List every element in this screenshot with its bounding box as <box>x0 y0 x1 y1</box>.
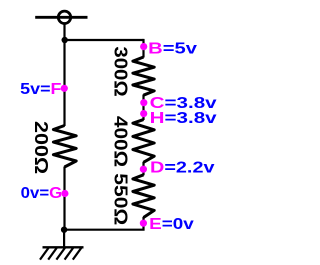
wire ground stem <box>63 230 65 247</box>
ground <box>40 247 84 259</box>
resistor 300 ohm zigzag <box>133 57 154 95</box>
resistor 550 ohm zigzag <box>133 175 154 218</box>
resistor 400 ohm zigzag <box>133 120 154 163</box>
svg-text:5v=F: 5v=F <box>20 81 62 98</box>
node H <box>140 110 147 117</box>
resistor 200 ohm zigzag <box>53 126 76 168</box>
node junction bottom <box>61 227 67 233</box>
svg-text:0v=G: 0v=G <box>21 185 62 202</box>
svg-text:E=0v: E=0v <box>149 216 194 233</box>
node F <box>61 85 68 92</box>
node D <box>140 166 147 173</box>
svg-text:B=5v: B=5v <box>148 41 197 58</box>
node C <box>140 99 147 106</box>
wire right vertical top (corner to 300 ohm) <box>142 39 144 58</box>
wire between 400 and 550 (node D) <box>142 162 144 176</box>
svg-text:D=2.2v: D=2.2v <box>150 160 215 177</box>
node junction top <box>61 37 67 43</box>
node G <box>61 190 68 197</box>
svg-text:550Ω: 550Ω <box>110 173 130 225</box>
svg-text:200Ω: 200Ω <box>31 121 51 174</box>
wire between 300 and 400 (nodes C,H) <box>142 95 144 121</box>
svg-text:300Ω: 300Ω <box>110 46 130 96</box>
wire left vertical upper (source to 200 ohm resistor) <box>63 24 65 127</box>
wire right vertical bottom (node E to corner) <box>64 217 143 230</box>
wire left vertical lower (200 ohm to bottom junction) <box>63 167 65 230</box>
voltage source V1 <box>35 11 87 23</box>
node B <box>140 43 147 50</box>
wire top rail <box>65 39 144 41</box>
svg-text:400Ω: 400Ω <box>110 116 130 167</box>
node E <box>140 220 147 227</box>
svg-text:H=3.8v: H=3.8v <box>150 110 217 127</box>
